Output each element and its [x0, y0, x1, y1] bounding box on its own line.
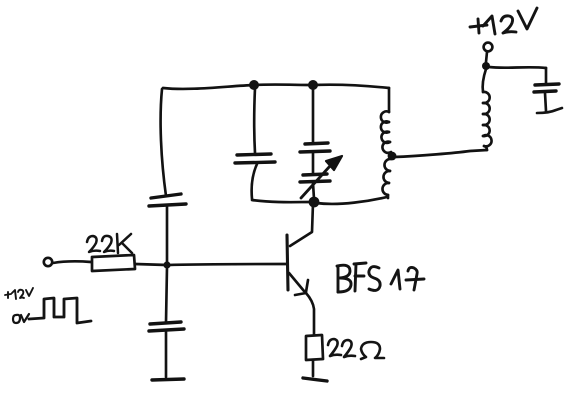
ground tick C5 — [537, 108, 562, 113]
square wave symbol — [29, 298, 91, 323]
node tank bottom — [309, 197, 320, 208]
node L1 tap — [388, 152, 397, 161]
wire C3 bottom lead — [313, 183, 314, 199]
wire C2 bottom lead to bottom rail — [252, 164, 257, 199]
wire input to R1 — [53, 261, 91, 263]
capacitor C5 — [534, 84, 559, 92]
node tank top left — [249, 80, 259, 90]
wire bottom rail of tank — [252, 200, 311, 202]
wire C4 top lead — [166, 267, 167, 322]
wire node to C5 — [489, 67, 546, 68]
capacitor C3 variable — [300, 143, 330, 182]
wire C1 bottom lead to base node — [166, 207, 169, 263]
input terminal — [44, 258, 52, 266]
label 0V — [13, 314, 29, 323]
node base junction — [163, 261, 170, 268]
wire left vertical from top rail down to C1 — [161, 89, 166, 196]
node tank top right — [308, 80, 318, 90]
terminal +12V — [484, 43, 493, 52]
wire top rail of tank — [163, 85, 389, 89]
wire C5 bottom lead — [545, 93, 546, 111]
arrow of variable capacitor — [301, 156, 342, 198]
capacitor C2 — [235, 154, 275, 163]
node supply junction — [482, 62, 490, 70]
wire C2 top lead — [253, 88, 256, 153]
transistor Q1 BFS17 — [287, 203, 314, 334]
wire R1 to base node — [135, 264, 167, 265]
inductor L2 choke — [483, 69, 492, 150]
label 22K — [87, 234, 132, 253]
wire R2 bottom lead — [312, 360, 315, 376]
resistor R1 22K body — [92, 255, 135, 271]
wire C3 top lead — [312, 87, 315, 142]
wire bottom rail right section — [316, 197, 387, 204]
label 22ohm — [328, 339, 384, 359]
label +12V top — [470, 8, 537, 34]
resistor R2 22ohm body — [306, 335, 323, 360]
ground left — [152, 379, 184, 380]
capacitor C1 coupling — [149, 194, 186, 206]
ground right — [303, 378, 327, 381]
label +12V small — [5, 288, 33, 299]
capacitor C4 — [149, 322, 184, 331]
wire C4 bottom lead — [165, 332, 168, 377]
inductor L1 tank coil — [381, 88, 391, 198]
wire base node to Q1 base — [167, 264, 286, 265]
wire tap to choke bottom — [394, 150, 487, 157]
label BFS17 — [337, 263, 424, 292]
wire terminal to node — [486, 52, 487, 62]
wire C5 top lead — [545, 68, 548, 83]
